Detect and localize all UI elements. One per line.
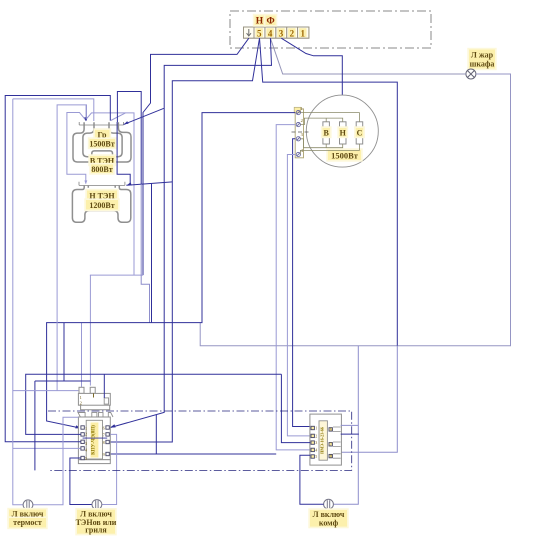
svg-text:6: 6: [103, 425, 105, 430]
oven lamp symbol: [466, 69, 476, 79]
svg-text:2: 2: [80, 401, 82, 406]
svg-text:С: С: [357, 129, 363, 138]
wire: drop from y=374.2 bus to thermostat contact: [103, 374, 105, 398]
terminal 1 label: [299, 28, 306, 38]
wire: horizontal y=374.2: [26, 374, 311, 442]
heating element Gr inner loop: [83, 122, 122, 157]
label Gr 1500W: [93, 128, 111, 140]
svg-text:термост: термост: [13, 518, 42, 527]
svg-text:3: 3: [315, 440, 317, 445]
svg-text:Ф: Ф: [267, 17, 275, 27]
hotplate body circle: [306, 95, 378, 167]
hotplate centre dashed line: [292, 131, 312, 133]
oven switch left terminals: [81, 426, 84, 460]
wire: lavender left loop to oven switch t4: [57, 105, 86, 391]
wire: lavender riser from bus down to thermostat pin 2: [89, 275, 91, 386]
svg-text:Н: Н: [340, 129, 347, 138]
hotplate terminal block body: [295, 109, 303, 158]
oven switch right terminals: [106, 426, 109, 456]
svg-text:гриля: гриля: [85, 525, 107, 534]
wire: funnel into upper element left terminal (lavender box): [67, 113, 86, 184]
terminal strip cell borders redraw: [244, 27, 309, 38]
wire: second drop from diagonal x=151.5 to y=322.6 bus: [151, 183, 153, 322]
wire: oven lamp left side to terminal 4: [270, 38, 466, 74]
svg-text:Н: Н: [256, 17, 264, 27]
wire: diagonal from lower element right terminal to x=172.3 bus: [126, 182, 172, 185]
wire: drop from diagonal at x=141.2 down and step to y=322.6 bus: [141, 184, 149, 322]
svg-text:1500Вт: 1500Вт: [89, 139, 114, 148]
wire: lavender V right leg and top run over element: [86, 113, 126, 120]
hotplate terminal 1: [296, 111, 300, 115]
oven switch top bumps: [78, 413, 113, 418]
arrowhead at oven switch right top terminal: [110, 424, 116, 427]
terminal 2 label: [288, 28, 295, 38]
arrowhead at upper element left terminal: [84, 117, 87, 121]
svg-text:шкафа: шкафа: [470, 59, 495, 68]
wire: funnel upper element right terminal to lavender riser to thermostat pin: [111, 113, 134, 275]
wire: riser from funnel diagonal down to y=454 bus: [155, 415, 157, 454]
heating element Gr+V-TEN terminal bar: [79, 122, 123, 125]
hotplate terminal 3: [296, 137, 300, 141]
svg-text:4: 4: [268, 28, 273, 38]
wire: terminal 3 to hotplate body: [281, 38, 342, 95]
svg-text:5: 5: [85, 456, 87, 461]
wire: lamp1 return to switch bottom: [33, 417, 79, 505]
wire: comf right terminal 2 stub: [341, 433, 359, 435]
wire: lavender branch to oven switch terminal 4: [13, 447, 81, 449]
wire: y=454 bus oven switch right terminal to comf t_d riser: [110, 453, 276, 455]
wire: navy drop into upper element left terminal: [85, 105, 87, 121]
ground terminal symbol (down arrow): [247, 29, 251, 36]
comf switch body: [310, 414, 342, 465]
hotplate internal wiring element bottoms to t3: [300, 139, 342, 148]
svg-text:КПУ-ЧЭ(8П): КПУ-ЧЭ(8П): [92, 425, 97, 455]
hotplate element N: [340, 122, 347, 144]
thermostat internal marks: [80, 395, 82, 406]
thermostat bottom flange: [81, 405, 110, 410]
wire: upper element right terminal down to lower element right terminal: [117, 122, 130, 184]
wire: oven lamp right return loop down to lavender bus y=346: [200, 74, 510, 346]
terminal strip X1 body: [244, 27, 309, 38]
wire: lamp1 feed lavender: [13, 99, 79, 505]
svg-text:2: 2: [290, 28, 295, 38]
svg-text:6: 6: [330, 427, 332, 432]
hotplate internal wiring t2 to elements B and N: [300, 118, 342, 125]
svg-text:5: 5: [257, 28, 262, 38]
wire: comf lamp left feed from terminal 5: [300, 455, 324, 504]
label L vkl TENov ili grilya: [75, 508, 116, 535]
hotplate element letter labels: [321, 126, 332, 138]
svg-text:800Вт: 800Вт: [91, 165, 112, 174]
hotplate internal wiring t1 to element C: [300, 113, 359, 122]
thermostat body: [78, 393, 110, 405]
svg-text:1: 1: [80, 395, 82, 400]
wire: terminal 5 second drop to right big loop x=397: [260, 38, 398, 346]
hotplate terminal pin numbers: [301, 106, 304, 153]
svg-text:2: 2: [85, 431, 87, 436]
wire: lavender riser to thermostat pin 1: [81, 323, 83, 387]
net label N (Н): [253, 14, 266, 27]
lamp TEN indicator symbol: [92, 500, 102, 510]
arrowhead at lower element right terminal: [127, 182, 132, 185]
svg-text:8: 8: [103, 440, 105, 445]
heating element Gr+V-TEN outer loop (V TEN 800W): [73, 122, 131, 162]
svg-text:2: 2: [315, 434, 317, 439]
svg-text:Л жар: Л жар: [471, 51, 494, 60]
terminal 4 label: [266, 28, 273, 38]
wire: navy diagonal from bar end to x=163.9: [124, 108, 164, 124]
wire: terminal 5 to left vertical bus x=172.9: [110, 38, 259, 442]
svg-text:В: В: [324, 129, 330, 138]
terminal 5 label: [256, 28, 263, 38]
label V TEN 800W: [88, 154, 116, 166]
wire: comf right terminal riser from y=346 bus down to comf lamp: [333, 346, 358, 505]
wire: comf right terminal 1 stub: [341, 424, 359, 426]
chassis dash-dot line upper (control panel): [48, 411, 352, 470]
wire: hotplate t2 lavender west to comf switch: [276, 125, 310, 450]
hotplate power label 1500W: [326, 148, 362, 161]
wire: ground terminal to left bus then bottom bus to right vertical and oven lamp loop: [143, 38, 249, 275]
wire: hotplate t3 down to bottom bus: [293, 139, 311, 427]
svg-text:9: 9: [103, 452, 105, 457]
svg-text:1200Вт: 1200Вт: [89, 201, 114, 210]
svg-text:1: 1: [301, 28, 306, 38]
svg-text:комф: комф: [319, 518, 339, 527]
net label F (Ф): [264, 14, 277, 27]
lamp comf indicator symbol: [324, 499, 334, 509]
arrowhead at lower element left terminal: [84, 180, 87, 184]
wire: hotplate t4 lavender to comf switch terminal b: [287, 155, 310, 436]
svg-text:1: 1: [85, 426, 87, 431]
label L vkl komf: [308, 508, 348, 528]
wire: horizontal y=380: [35, 381, 91, 470]
heating element N-TEN terminal bar: [79, 182, 125, 186]
hotplate element C: [356, 122, 363, 144]
wire: lavender continuation x=397.3 from bus down into comf right terminal: [341, 346, 398, 453]
heating element N-TEN 1200W outline: [72, 186, 130, 223]
comf switch inner label plate: [319, 421, 327, 460]
terminal 3 label: [277, 28, 284, 38]
svg-text:8: 8: [330, 453, 332, 458]
thermostat contact square: [104, 398, 108, 404]
arrowhead at oven switch left top terminal: [75, 425, 81, 428]
label N TEN 1200W: [85, 189, 118, 202]
thermostat pin 1: [79, 387, 84, 393]
oven switch bottom flange: [78, 460, 110, 464]
svg-text:7: 7: [103, 432, 105, 437]
arrowhead at upper element right terminal: [124, 121, 129, 124]
wire: hotplate t1 west to x=202 drop to oven switch funnel: [47, 113, 296, 429]
svg-text:5: 5: [315, 454, 317, 459]
svg-text:1500Вт: 1500Вт: [331, 151, 359, 161]
oven switch inner label plate: [86, 420, 102, 459]
hotplate terminal 4: [296, 152, 300, 156]
wire: loop from upper right terminal over to x=141.2 drop: [117, 92, 141, 185]
oven lamp label (Л жар шкафа): [467, 48, 496, 70]
svg-text:3: 3: [85, 441, 87, 446]
thermostat pin 2: [90, 387, 95, 393]
wire: second left loop to oven switch t3: [13, 99, 94, 121]
comf switch right terminals: [329, 428, 332, 458]
hotplate element B: [323, 122, 330, 144]
oven switch internal link wire: [83, 437, 108, 439]
svg-text:4: 4: [315, 448, 317, 453]
wire: lamp2 return riser: [102, 434, 117, 504]
svg-text:1: 1: [315, 426, 317, 431]
oven switch body: [78, 417, 110, 460]
wire: oven switch t5 to lamp2: [70, 458, 92, 505]
svg-text:2: 2: [301, 118, 303, 123]
hotplate terminal 2: [296, 123, 300, 127]
svg-text:7: 7: [330, 442, 332, 447]
wire: lavender bus extension y=275.5 to x=150.5: [90, 274, 143, 276]
wire: terminal 4 to left vertical bus x=163.9: [111, 38, 272, 427]
wire: left tall loop to oven switch t2 and upper element right neck: [5, 96, 110, 442]
comf switch right terminal stubs: [333, 427, 341, 458]
svg-text:3: 3: [279, 28, 284, 38]
lamp thermostat indicator symbol: [23, 500, 33, 510]
chassis dash-dot boundary box (mains terminal area): [230, 11, 431, 48]
wire: left loop x=64 to upper element left neck 2: [63, 323, 65, 381]
svg-text:1: 1: [301, 106, 303, 111]
svg-text:ПМЭ-16-23-66: ПМЭ-16-23-66: [319, 427, 324, 454]
comf switch terminal numbers: [315, 426, 332, 460]
hotplate internal wiring element C bottom to t4: [300, 144, 359, 155]
comf switch left terminals: [311, 426, 314, 458]
label L vkl termost: [7, 508, 47, 529]
oven switch terminal numbers: [85, 425, 105, 461]
